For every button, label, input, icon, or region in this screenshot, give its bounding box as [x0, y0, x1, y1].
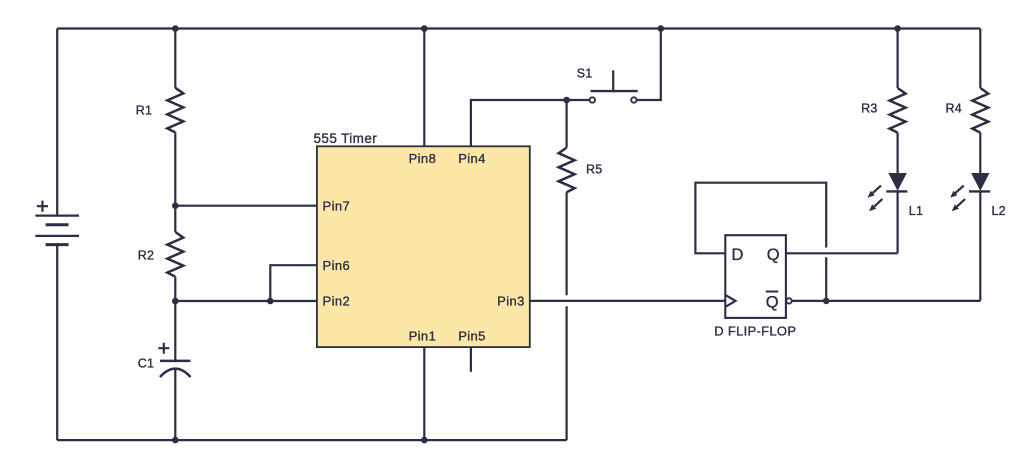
- svg-text:555 Timer: 555 Timer: [314, 131, 378, 146]
- svg-text:R5: R5: [586, 163, 602, 177]
- wire R5 bottom upper segment (crossover gap at Pin3): [565, 192, 567, 295]
- svg-text:Pin5: Pin5: [458, 328, 486, 343]
- battery B1: [35, 201, 79, 245]
- wire R1 top: [174, 29, 176, 88]
- flip-flop Qbar bubble: [786, 298, 791, 303]
- LED L2: [950, 173, 990, 211]
- LED L1: [868, 173, 908, 211]
- wire Pin6 elbow: [270, 265, 317, 301]
- node R2/Pin2 junction: [172, 298, 179, 305]
- resistor R2: [167, 232, 183, 277]
- node Pin4/S1/R5 junction: [563, 97, 570, 104]
- wire Pin5 stub: [470, 347, 472, 372]
- wire Pin4 elbow: [471, 100, 567, 146]
- wire Q output: [786, 252, 898, 254]
- svg-text:Pin6: Pin6: [323, 258, 351, 273]
- node bottom rail / C1: [172, 437, 179, 444]
- wire R5 bottom lower segment: [565, 306, 567, 440]
- svg-text:D FLIP-FLOP: D FLIP-FLOP: [714, 324, 796, 339]
- node top rail / S1: [658, 25, 665, 32]
- svg-text:L1: L1: [909, 204, 923, 218]
- resistor R1: [167, 88, 183, 133]
- svg-text:R2: R2: [138, 249, 154, 263]
- resistor R3: [890, 88, 906, 133]
- wire R5 top: [565, 100, 567, 148]
- svg-text:R3: R3: [861, 102, 877, 116]
- wire R1 to R2: [174, 132, 176, 232]
- capacitor C1: [158, 343, 190, 377]
- wire Pin7: [175, 205, 317, 207]
- wire R3 top: [896, 29, 898, 89]
- wire L1 to Q: [896, 191, 898, 253]
- wire bottom rail: [57, 439, 566, 441]
- flip-flop Qbar overbar: [766, 291, 778, 293]
- svg-text:R4: R4: [946, 102, 962, 116]
- svg-text:R1: R1: [136, 104, 152, 118]
- svg-text:Pin7: Pin7: [323, 198, 351, 213]
- wire D feedback loop: [695, 183, 826, 254]
- wire Qbar output: [792, 300, 981, 302]
- svg-text:Pin8: Pin8: [409, 151, 437, 166]
- switch S1: [567, 29, 661, 103]
- node R1/R2/Pin7 junction: [172, 202, 179, 209]
- wire Pin2: [175, 300, 317, 302]
- wire Pin1: [423, 347, 425, 440]
- node top rail / Pin8: [421, 25, 428, 32]
- wire Pin8: [423, 29, 425, 147]
- IC U1 555 timer box: [317, 146, 530, 347]
- svg-text:Pin1: Pin1: [409, 328, 437, 343]
- wire feedback lower segment: [825, 257, 827, 301]
- node top rail / R1: [172, 25, 179, 32]
- svg-text:Q: Q: [767, 246, 780, 264]
- node bottom rail / Pin1: [421, 437, 428, 444]
- flip-flop U2 box: [725, 235, 786, 318]
- svg-text:Pin4: Pin4: [458, 151, 486, 166]
- wire left rail upper (battery +): [56, 29, 58, 216]
- node Pin6 elbow junction: [267, 298, 274, 305]
- svg-text:S1: S1: [577, 67, 593, 81]
- wire C1 bottom: [174, 369, 176, 440]
- wire top rail: [57, 27, 980, 29]
- wire L2 to Qbar: [979, 191, 981, 301]
- svg-text:D: D: [732, 246, 744, 264]
- wire R4 to L2: [979, 133, 981, 173]
- wire C1 top: [174, 301, 176, 361]
- wire R3 to L1: [896, 133, 898, 173]
- node Qbar line junction: [823, 298, 830, 305]
- svg-text:L2: L2: [992, 204, 1006, 218]
- resistor R5: [559, 148, 575, 193]
- wire R2 bottom: [174, 277, 176, 301]
- wire Pin3 to clock: [530, 300, 726, 302]
- wire left rail lower: [56, 245, 58, 441]
- flip-flop clock triangle: [725, 295, 735, 307]
- wire R4 top (top rail right corner): [979, 29, 981, 89]
- svg-text:Pin3: Pin3: [497, 294, 525, 309]
- svg-text:Pin2: Pin2: [323, 294, 351, 309]
- svg-text:C1: C1: [138, 357, 154, 371]
- resistor R4: [972, 88, 988, 133]
- svg-text:Q: Q: [766, 294, 779, 312]
- node top rail / R3: [894, 25, 901, 32]
